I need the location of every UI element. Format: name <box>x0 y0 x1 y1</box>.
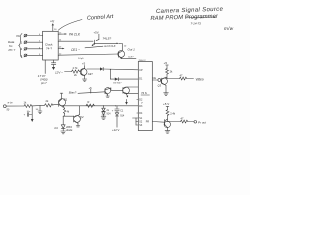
svg-text:D1: D1 <box>55 126 59 130</box>
svg-text:pin 7: pin 7 <box>40 81 47 85</box>
svg-text:7-14-73: 7-14-73 <box>191 21 202 25</box>
svg-text:Pr out: Pr out <box>198 120 206 124</box>
svg-text:Bias?: Bias? <box>69 91 77 95</box>
svg-text:+5 V: +5 V <box>163 102 169 106</box>
svg-text:PC ?: PC ? <box>9 48 16 52</box>
svg-text:1N 914?: 1N 914? <box>113 82 122 84</box>
svg-text:Q2: Q2 <box>80 115 84 119</box>
svg-text:Video: Video <box>196 77 204 81</box>
svg-text:74LS?: 74LS? <box>103 36 112 40</box>
svg-text:PA: PA <box>17 34 21 38</box>
svg-text:74-?: 74-? <box>46 47 52 51</box>
svg-text:out 0 CLK: out 0 CLK <box>104 44 116 48</box>
svg-text:+5: +5 <box>82 62 86 66</box>
svg-text:diode: diode <box>66 128 73 132</box>
svg-text:CE1 ~: CE1 ~ <box>71 48 80 52</box>
svg-text:PR: PR <box>146 121 150 124</box>
svg-text:PA CLK: PA CLK <box>69 33 81 37</box>
svg-text:e in: e in <box>8 101 13 105</box>
svg-text:2504 V: 2504 V <box>139 60 146 62</box>
svg-text:74 S: 74 S <box>141 91 147 95</box>
svg-text:14 p5: 14 p5 <box>78 58 84 60</box>
svg-text:CE?: CE? <box>88 72 94 76</box>
svg-text:914: 914 <box>120 115 125 118</box>
svg-text:m/w: m/w <box>224 26 234 31</box>
svg-text:+V: +V <box>50 20 55 24</box>
svg-text:Out 1: Out 1 <box>128 47 136 51</box>
svg-text:CP: CP <box>139 69 143 72</box>
svg-text:+12 V: +12 V <box>112 128 120 132</box>
svg-text:R: R <box>88 100 90 104</box>
svg-text:2.4k: 2.4k <box>170 112 176 116</box>
svg-text:17 0?: 17 0? <box>38 74 46 78</box>
svg-text:4.7k: 4.7k <box>73 66 79 70</box>
svg-text:12V ~: 12V ~ <box>55 70 63 74</box>
svg-text:Q1: Q1 <box>64 98 68 102</box>
svg-text:+5V: +5V <box>94 30 99 34</box>
svg-text:+5: +5 <box>164 61 168 65</box>
svg-text:Q3: Q3 <box>158 83 162 87</box>
svg-text:914: 914 <box>107 112 112 115</box>
svg-text:CLK?: CLK? <box>128 57 134 59</box>
